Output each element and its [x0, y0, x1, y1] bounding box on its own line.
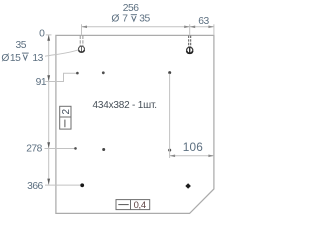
- svg-text:35: 35: [139, 14, 150, 25]
- arrow 106 right: [208, 155, 214, 158]
- svg-text:Ø: Ø: [1, 53, 9, 64]
- datum 0 tick: [46, 34, 52, 36]
- svg-text:63: 63: [198, 16, 209, 27]
- station 278 leader: [45, 148, 76, 150]
- station 366 leader: [45, 184, 82, 186]
- svg-text:13: 13: [32, 53, 43, 64]
- dimension line 256: [82, 26, 190, 28]
- station 366 arrow: [47, 179, 50, 185]
- hole dot row278 c1: [74, 147, 77, 150]
- straightness tolerance frame (rotated) at left edge: [60, 106, 71, 129]
- depth symbol top: [131, 15, 137, 21]
- hole dot row278 c3: [168, 149, 171, 152]
- leader from diam15 text to hole B1: [45, 50, 78, 56]
- svg-text:0: 0: [39, 29, 45, 40]
- hole dot row91 c2: [102, 71, 105, 74]
- straightness tolerance frame bottom: [116, 200, 150, 210]
- hole dot row278 c2: [102, 148, 105, 151]
- svg-text:35: 35: [16, 40, 27, 51]
- svg-text:434x382 - 1шт.: 434x382 - 1шт.: [93, 100, 157, 111]
- depth symbol left: [22, 53, 29, 60]
- straightness symbol bottom: [118, 204, 128, 206]
- hole B2 wall lines: [188, 36, 190, 48]
- svg-text:2: 2: [61, 108, 72, 114]
- datum 0 arrow (up): [47, 35, 50, 41]
- arrow 106 left: [170, 155, 176, 158]
- hole dot row91 c3: [168, 71, 171, 74]
- hole dot row91 c1: [76, 72, 79, 75]
- svg-text:91: 91: [36, 77, 47, 88]
- straightness symbol (rotated): [64, 120, 66, 128]
- panel outline 434x382: [56, 35, 214, 213]
- arrow 63 right: [208, 26, 214, 29]
- extension line for 106 (from hole column down): [169, 74, 171, 158]
- svg-text:106: 106: [183, 140, 204, 154]
- svg-text:7: 7: [122, 14, 128, 25]
- extension line hole B2 top: [189, 24, 191, 35]
- arrow 256 left: [82, 26, 88, 29]
- station 278 arrow: [47, 142, 50, 148]
- svg-text:0,4: 0,4: [134, 199, 146, 210]
- svg-text:Ø: Ø: [111, 14, 119, 25]
- station 91 tick + zigzag leader to hole: [45, 73, 77, 81]
- dimension line 63: [190, 26, 214, 28]
- diamond hole marker: [185, 183, 191, 189]
- arrow 256 right / 63 left: [184, 26, 190, 29]
- station 91 arrow: [47, 75, 50, 81]
- svg-text:278: 278: [26, 144, 42, 155]
- hole B1 counterbore circle diam15: [79, 46, 85, 52]
- hole B1: diam7 deep 35 wall lines: [79, 36, 81, 47]
- hole B2 counterbore circle: [187, 47, 193, 53]
- left ordinate dimension line: [48, 35, 50, 185]
- extension line hole B1 top: [81, 24, 83, 35]
- hole dot row366 (large): [80, 183, 84, 187]
- svg-text:256: 256: [123, 3, 139, 14]
- dimension line 106: [170, 155, 214, 157]
- extension line right edge top: [213, 24, 215, 35]
- svg-text:366: 366: [27, 181, 43, 192]
- svg-text:15: 15: [10, 53, 21, 64]
